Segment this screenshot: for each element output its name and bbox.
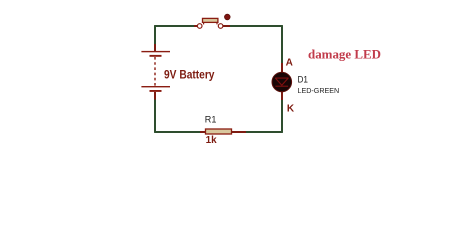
pushbutton SW1 actuator dot	[225, 14, 231, 20]
resistor R1 right pin	[232, 131, 247, 133]
LED D1 triangle symbol	[275, 78, 288, 85]
svg-text:LED-GREEN: LED-GREEN	[298, 86, 340, 95]
wire right vertical lower	[281, 100, 283, 133]
pushbutton SW1 left leg	[203, 22, 204, 24]
LED D1 cathode bar symbol	[275, 85, 288, 87]
wire bottom-right segment	[246, 131, 283, 133]
LED D1 anode pin	[281, 63, 283, 73]
battery BAT1 bottom cell short plate	[150, 90, 162, 92]
svg-text:damage LED: damage LED	[308, 47, 381, 61]
resistor R1 left pin	[200, 131, 206, 133]
battery BAT1 bottom cell long plate	[141, 86, 170, 87]
battery BAT1 top cell short plate	[150, 55, 162, 57]
pushbutton SW1 right contact	[218, 24, 223, 29]
svg-text:A: A	[286, 58, 293, 69]
wire bottom-left segment	[154, 131, 200, 133]
pushbutton SW1 left pin	[194, 25, 197, 27]
svg-text:1k: 1k	[206, 135, 217, 146]
battery BAT1 top cell long plate	[141, 51, 170, 52]
battery BAT1 dashed link	[154, 57, 156, 86]
battery BAT1 top pin	[154, 44, 156, 52]
wire right vertical upper	[281, 25, 283, 63]
svg-text:R1: R1	[205, 115, 217, 125]
pushbutton SW1 bar	[203, 18, 218, 22]
wire top-right segment	[230, 25, 283, 27]
wire left vertical lower	[154, 100, 156, 133]
battery BAT1 bottom pin	[154, 92, 156, 100]
pushbutton SW1 right pin	[223, 25, 230, 27]
svg-text:D1: D1	[298, 74, 309, 85]
svg-text:9V Battery: 9V Battery	[164, 67, 215, 81]
pushbutton SW1 left contact	[197, 24, 202, 29]
wire top-left segment	[154, 25, 194, 27]
wire left vertical upper	[154, 25, 156, 44]
svg-text:K: K	[287, 104, 295, 115]
LED D1 body	[272, 72, 292, 92]
pushbutton SW1 right leg	[216, 22, 217, 24]
LED D1 cathode pin	[281, 91, 283, 100]
resistor R1 body	[206, 129, 232, 134]
